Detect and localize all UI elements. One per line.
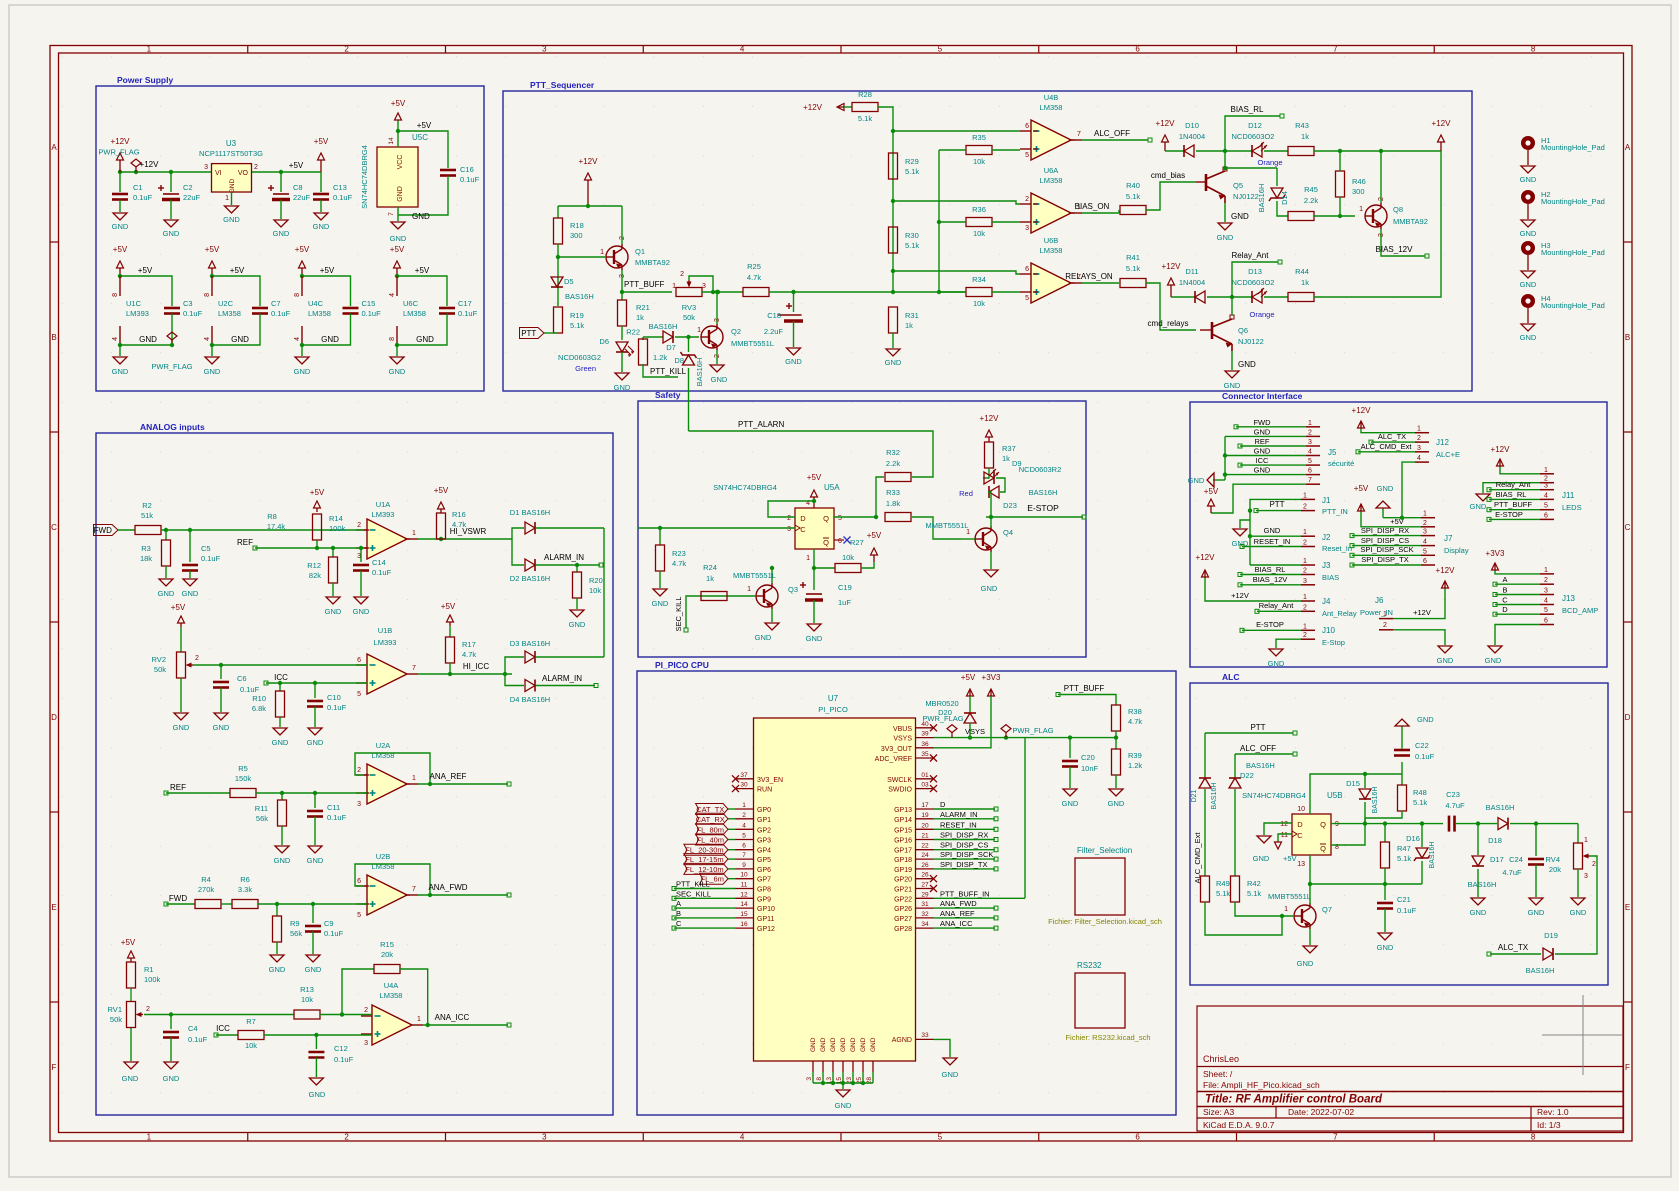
svg-text:PWR_FLAG: PWR_FLAG bbox=[98, 148, 139, 157]
svg-text:J13: J13 bbox=[1562, 594, 1575, 603]
svg-text:D: D bbox=[940, 800, 946, 809]
svg-text:AGND: AGND bbox=[892, 1037, 912, 1044]
svg-text:9: 9 bbox=[1335, 821, 1339, 828]
svg-text:GND: GND bbox=[1254, 466, 1271, 475]
svg-text:+12V: +12V bbox=[1156, 119, 1176, 128]
svg-text:D7: D7 bbox=[666, 343, 676, 352]
svg-text:D10: D10 bbox=[1185, 121, 1199, 130]
svg-text:4: 4 bbox=[1308, 449, 1312, 456]
svg-text:R27: R27 bbox=[850, 538, 864, 547]
svg-text:Q3: Q3 bbox=[788, 585, 798, 594]
svg-text:ICC: ICC bbox=[216, 1024, 230, 1033]
svg-text:NCD0603O2: NCD0603O2 bbox=[1232, 278, 1275, 287]
svg-text:50k: 50k bbox=[154, 665, 166, 674]
svg-text:D15: D15 bbox=[1346, 779, 1360, 788]
svg-text:BAS16H: BAS16H bbox=[1246, 761, 1275, 770]
svg-text:1: 1 bbox=[1544, 567, 1548, 574]
svg-text:D: D bbox=[800, 514, 806, 523]
svg-text:cmd_relays: cmd_relays bbox=[1148, 319, 1189, 328]
svg-text:+5V: +5V bbox=[391, 99, 406, 108]
svg-text:ALC_TX: ALC_TX bbox=[1498, 943, 1529, 952]
svg-text:BAS16H: BAS16H bbox=[1429, 842, 1436, 869]
svg-text:MBR0520: MBR0520 bbox=[925, 699, 958, 708]
svg-text:VI: VI bbox=[215, 170, 222, 177]
svg-text:33: 33 bbox=[921, 1032, 929, 1039]
svg-text:GND: GND bbox=[1108, 799, 1125, 808]
svg-text:SEC_KILL: SEC_KILL bbox=[676, 889, 711, 898]
svg-text:3: 3 bbox=[357, 801, 361, 808]
svg-text:R44: R44 bbox=[1295, 267, 1309, 276]
svg-text:LM358: LM358 bbox=[218, 309, 241, 318]
svg-text:R28: R28 bbox=[858, 90, 872, 99]
svg-text:R7: R7 bbox=[246, 1017, 256, 1026]
svg-text:D3 BAS16H: D3 BAS16H bbox=[510, 639, 550, 648]
svg-text:MMBTA92: MMBTA92 bbox=[1393, 217, 1428, 226]
svg-text:R9: R9 bbox=[290, 919, 300, 928]
svg-text:7: 7 bbox=[412, 886, 416, 893]
svg-text:SPI_DISP_CS: SPI_DISP_CS bbox=[1361, 536, 1409, 545]
svg-text:6: 6 bbox=[838, 538, 842, 545]
svg-text:R29: R29 bbox=[905, 157, 919, 166]
svg-text:50k: 50k bbox=[110, 1015, 122, 1024]
svg-text:+5V: +5V bbox=[205, 245, 220, 254]
svg-text:D21: D21 bbox=[1191, 789, 1198, 802]
svg-text:35: 35 bbox=[921, 751, 929, 758]
svg-text:ALC+E: ALC+E bbox=[1436, 450, 1460, 459]
svg-text:U5B: U5B bbox=[1327, 791, 1343, 800]
svg-text:2: 2 bbox=[680, 271, 684, 278]
svg-text:File: Ampli_HF_Pico.kicad_sch: File: Ampli_HF_Pico.kicad_sch bbox=[1203, 1080, 1320, 1090]
svg-text:D5: D5 bbox=[564, 277, 574, 286]
svg-text:Safety: Safety bbox=[655, 390, 681, 400]
svg-text:PTT_BUFF_IN: PTT_BUFF_IN bbox=[940, 889, 990, 898]
svg-text:34: 34 bbox=[921, 921, 929, 928]
svg-text:100k: 100k bbox=[329, 524, 346, 533]
svg-text:GND: GND bbox=[416, 335, 434, 344]
svg-text:R4: R4 bbox=[201, 875, 211, 884]
svg-text:6: 6 bbox=[1308, 468, 1312, 475]
svg-text:R19: R19 bbox=[570, 311, 584, 320]
svg-text:GND: GND bbox=[1377, 484, 1394, 493]
svg-text:7: 7 bbox=[388, 212, 395, 216]
svg-text:0.1uF: 0.1uF bbox=[240, 685, 260, 694]
svg-text:ALARM_IN: ALARM_IN bbox=[542, 674, 582, 683]
svg-text:2: 2 bbox=[1303, 604, 1307, 611]
svg-text:10k: 10k bbox=[973, 229, 985, 238]
svg-text:E-STOP: E-STOP bbox=[1256, 620, 1284, 629]
svg-text:GND: GND bbox=[204, 367, 221, 376]
svg-text:RV1: RV1 bbox=[108, 1005, 122, 1014]
svg-text:1: 1 bbox=[225, 195, 229, 202]
svg-text:R35: R35 bbox=[972, 133, 986, 142]
svg-text:SPI_DISP_CS: SPI_DISP_CS bbox=[940, 841, 988, 850]
svg-text:+5V: +5V bbox=[441, 602, 456, 611]
svg-text:REF: REF bbox=[237, 538, 253, 547]
svg-text:+12V: +12V bbox=[1491, 445, 1511, 454]
svg-text:2: 2 bbox=[1303, 568, 1307, 575]
svg-text:U4B: U4B bbox=[1044, 93, 1059, 102]
svg-text:10: 10 bbox=[740, 872, 748, 879]
svg-text:Relay_Ant: Relay_Ant bbox=[1496, 480, 1532, 489]
svg-text:Q: Q bbox=[1320, 844, 1326, 853]
svg-text:ANA_ICC: ANA_ICC bbox=[435, 1013, 470, 1022]
svg-text:GP15: GP15 bbox=[894, 827, 912, 834]
svg-text:5: 5 bbox=[357, 912, 361, 919]
svg-text:ANA_FWD: ANA_FWD bbox=[940, 899, 977, 908]
svg-text:3: 3 bbox=[364, 1040, 368, 1047]
svg-text:R17: R17 bbox=[462, 640, 476, 649]
svg-text:ALARM_IN: ALARM_IN bbox=[940, 810, 978, 819]
svg-text:PTT: PTT bbox=[1250, 723, 1265, 732]
svg-text:GND: GND bbox=[614, 383, 631, 392]
svg-text:GP4: GP4 bbox=[757, 848, 771, 855]
svg-text:R8: R8 bbox=[267, 512, 277, 521]
svg-text:D: D bbox=[1297, 820, 1303, 829]
svg-text:1: 1 bbox=[417, 1016, 421, 1023]
svg-text:4: 4 bbox=[740, 45, 745, 54]
svg-text:3: 3 bbox=[1584, 873, 1588, 880]
svg-text:D12: D12 bbox=[1248, 121, 1262, 130]
svg-text:RS232: RS232 bbox=[1077, 961, 1102, 970]
svg-text:2: 2 bbox=[146, 1006, 150, 1013]
svg-text:Relay_Ant: Relay_Ant bbox=[1232, 251, 1270, 260]
svg-text:1: 1 bbox=[1303, 558, 1307, 565]
svg-text:R46: R46 bbox=[1352, 177, 1366, 186]
svg-text:+3V3: +3V3 bbox=[982, 673, 1001, 682]
svg-text:5.1k: 5.1k bbox=[1397, 854, 1411, 863]
svg-text:PI_PICO: PI_PICO bbox=[818, 705, 848, 714]
svg-text:5: 5 bbox=[938, 1133, 943, 1142]
svg-text:C: C bbox=[1625, 523, 1631, 532]
svg-text:MountingHole_Pad: MountingHole_Pad bbox=[1541, 197, 1605, 206]
svg-text:FL_12-10m: FL_12-10m bbox=[685, 865, 723, 874]
svg-text:+5V: +5V bbox=[113, 245, 128, 254]
svg-text:Q8: Q8 bbox=[1393, 205, 1403, 214]
svg-text:4.7uF: 4.7uF bbox=[1445, 801, 1465, 810]
svg-text:ADC_VREF: ADC_VREF bbox=[875, 756, 912, 763]
svg-text:GP16: GP16 bbox=[894, 838, 912, 845]
svg-text:GND: GND bbox=[981, 584, 998, 593]
svg-text:GP8: GP8 bbox=[757, 887, 771, 894]
svg-text:1.8k: 1.8k bbox=[886, 499, 900, 508]
svg-text:PWR_FLAG: PWR_FLAG bbox=[1012, 726, 1053, 735]
svg-text:2: 2 bbox=[1308, 429, 1312, 436]
svg-text:5: 5 bbox=[1544, 607, 1548, 614]
svg-text:Q4: Q4 bbox=[1003, 528, 1013, 537]
svg-text:36: 36 bbox=[921, 741, 929, 748]
svg-text:J6: J6 bbox=[1375, 596, 1384, 605]
svg-text:C: C bbox=[1502, 596, 1508, 605]
svg-text:+5V: +5V bbox=[415, 266, 430, 275]
svg-text:6: 6 bbox=[1423, 558, 1427, 565]
svg-text:51k: 51k bbox=[141, 511, 153, 520]
svg-text:GND: GND bbox=[412, 212, 430, 221]
svg-text:R13: R13 bbox=[300, 985, 314, 994]
svg-text:R14: R14 bbox=[329, 514, 343, 523]
svg-text:+5V: +5V bbox=[434, 486, 449, 495]
svg-text:C13: C13 bbox=[333, 183, 347, 192]
svg-text:R48: R48 bbox=[1413, 788, 1427, 797]
svg-text:GND: GND bbox=[1188, 476, 1205, 485]
svg-text:SWCLK: SWCLK bbox=[887, 777, 912, 784]
svg-text:+12V: +12V bbox=[1352, 406, 1372, 415]
svg-text:Filter_Selection: Filter_Selection bbox=[1077, 846, 1132, 855]
svg-text:D: D bbox=[1625, 713, 1631, 722]
svg-text:BCD_AMP: BCD_AMP bbox=[1562, 606, 1598, 615]
svg-text:LM358: LM358 bbox=[380, 991, 403, 1000]
svg-text:PTT_ALARN: PTT_ALARN bbox=[738, 420, 784, 429]
svg-text:GP26: GP26 bbox=[894, 906, 912, 913]
svg-text:8: 8 bbox=[816, 1077, 823, 1081]
svg-text:GND: GND bbox=[307, 856, 324, 865]
svg-text:Q: Q bbox=[823, 538, 829, 547]
svg-text:GND: GND bbox=[353, 607, 370, 616]
svg-text:3: 3 bbox=[542, 45, 547, 54]
svg-text:R34: R34 bbox=[972, 275, 986, 284]
svg-text:3V3_EN: 3V3_EN bbox=[757, 777, 783, 784]
svg-text:D16: D16 bbox=[1406, 834, 1420, 843]
svg-text:D17: D17 bbox=[1490, 855, 1504, 864]
svg-text:1: 1 bbox=[147, 45, 152, 54]
svg-text:1: 1 bbox=[1359, 206, 1363, 213]
svg-text:GND: GND bbox=[1570, 908, 1587, 917]
svg-text:8: 8 bbox=[1531, 1133, 1536, 1142]
svg-text:0.1uF: 0.1uF bbox=[1415, 752, 1435, 761]
svg-text:J3: J3 bbox=[1322, 561, 1331, 570]
svg-text:C1: C1 bbox=[133, 183, 143, 192]
svg-text:NCD0603G2: NCD0603G2 bbox=[558, 353, 601, 362]
svg-text:E-STOP: E-STOP bbox=[1027, 503, 1059, 513]
svg-text:U5C: U5C bbox=[412, 133, 428, 142]
svg-text:31: 31 bbox=[921, 901, 929, 908]
svg-text:2: 2 bbox=[254, 164, 258, 171]
svg-text:F: F bbox=[52, 1063, 57, 1072]
svg-text:R31: R31 bbox=[905, 311, 919, 320]
svg-text:D4 BAS16H: D4 BAS16H bbox=[510, 695, 550, 704]
svg-text:10k: 10k bbox=[301, 995, 313, 1004]
svg-text:GND: GND bbox=[269, 965, 286, 974]
svg-text:R6: R6 bbox=[240, 875, 250, 884]
svg-text:+12V: +12V bbox=[1432, 119, 1452, 128]
svg-text:R32: R32 bbox=[886, 448, 900, 457]
svg-text:8: 8 bbox=[294, 293, 301, 297]
svg-text:Connector Interface: Connector Interface bbox=[1222, 391, 1303, 401]
svg-text:2: 2 bbox=[344, 45, 349, 54]
svg-text:GND: GND bbox=[1238, 360, 1256, 369]
svg-text:3: 3 bbox=[1544, 483, 1548, 490]
svg-text:17: 17 bbox=[921, 802, 929, 809]
svg-text:GND: GND bbox=[870, 1037, 877, 1052]
svg-text:GND: GND bbox=[313, 222, 330, 231]
svg-text:6: 6 bbox=[357, 878, 361, 885]
svg-text:VO: VO bbox=[238, 170, 249, 177]
svg-text:Title: RF Amplifier control Bo: Title: RF Amplifier control Board bbox=[1205, 1094, 1383, 1106]
svg-text:GND: GND bbox=[272, 738, 289, 747]
svg-text:0.1uF: 0.1uF bbox=[324, 929, 344, 938]
svg-text:D11: D11 bbox=[1185, 267, 1198, 276]
svg-text:GND: GND bbox=[390, 234, 407, 243]
svg-text:GND: GND bbox=[182, 589, 199, 598]
svg-text:A: A bbox=[1502, 575, 1507, 584]
svg-text:6: 6 bbox=[1544, 618, 1548, 625]
svg-text:SPI_DISP_RX: SPI_DISP_RX bbox=[940, 831, 988, 840]
svg-text:20: 20 bbox=[921, 822, 929, 829]
svg-text:LM358: LM358 bbox=[308, 309, 331, 318]
svg-text:BAS16H: BAS16H bbox=[1372, 787, 1379, 814]
svg-text:GND: GND bbox=[1297, 959, 1314, 968]
svg-text:GP14: GP14 bbox=[894, 817, 912, 824]
svg-text:GND: GND bbox=[1520, 229, 1537, 238]
svg-text:GND: GND bbox=[785, 357, 802, 366]
svg-text:17.4k: 17.4k bbox=[267, 522, 286, 531]
svg-text:NCP1117ST50T3G: NCP1117ST50T3G bbox=[199, 149, 263, 158]
svg-text:Power_IN: Power_IN bbox=[1360, 608, 1393, 617]
svg-text:1N4004: 1N4004 bbox=[1179, 278, 1205, 287]
svg-text:ALC: ALC bbox=[1222, 672, 1239, 682]
svg-text:GND: GND bbox=[810, 1037, 817, 1052]
svg-text:4.7k: 4.7k bbox=[462, 650, 476, 659]
svg-text:GND: GND bbox=[122, 1074, 139, 1083]
svg-text:1uF: 1uF bbox=[838, 598, 851, 607]
svg-text:03: 03 bbox=[921, 782, 929, 789]
svg-text:1k: 1k bbox=[905, 321, 913, 330]
svg-text:+12V: +12V bbox=[111, 137, 131, 146]
svg-text:Q2: Q2 bbox=[731, 327, 741, 336]
svg-text:8: 8 bbox=[1531, 45, 1536, 54]
svg-text:GP17: GP17 bbox=[894, 848, 912, 855]
svg-text:10k: 10k bbox=[973, 157, 985, 166]
svg-text:GND: GND bbox=[397, 186, 404, 202]
svg-text:ANALOG inputs: ANALOG inputs bbox=[140, 422, 205, 432]
svg-text:GP27: GP27 bbox=[894, 916, 912, 923]
svg-text:R1: R1 bbox=[144, 965, 154, 974]
svg-text:C22: C22 bbox=[1415, 741, 1429, 750]
svg-text:D: D bbox=[51, 713, 57, 722]
svg-text:1: 1 bbox=[697, 327, 701, 334]
svg-text:3: 3 bbox=[702, 283, 706, 290]
svg-text:C23: C23 bbox=[1446, 790, 1460, 799]
svg-text:C17: C17 bbox=[458, 299, 472, 308]
svg-text:SPI_DISP_SCK: SPI_DISP_SCK bbox=[940, 850, 993, 859]
svg-text:Size: A3: Size: A3 bbox=[1203, 1107, 1234, 1117]
svg-text:1k: 1k bbox=[706, 574, 714, 583]
svg-text:1: 1 bbox=[1383, 611, 1387, 618]
svg-text:21: 21 bbox=[921, 833, 929, 840]
svg-text:GND: GND bbox=[835, 1101, 852, 1110]
svg-text:D8: D8 bbox=[674, 356, 684, 365]
svg-text:Q: Q bbox=[823, 514, 829, 523]
svg-text:MountingHole_Pad: MountingHole_Pad bbox=[1541, 143, 1605, 152]
svg-text:4: 4 bbox=[1544, 492, 1548, 499]
svg-text:GP10: GP10 bbox=[757, 906, 775, 913]
svg-text:6: 6 bbox=[742, 843, 746, 850]
svg-text:C9: C9 bbox=[324, 919, 334, 928]
svg-text:C11: C11 bbox=[327, 803, 340, 812]
svg-text:GND: GND bbox=[1520, 333, 1537, 342]
svg-text:2: 2 bbox=[195, 655, 199, 662]
svg-text:J5: J5 bbox=[1328, 448, 1337, 457]
svg-text:3V3_OUT: 3V3_OUT bbox=[881, 746, 913, 753]
svg-text:PTT_Sequencer: PTT_Sequencer bbox=[530, 80, 595, 90]
svg-text:BIAS: BIAS bbox=[1322, 573, 1339, 582]
svg-text:4.7uF: 4.7uF bbox=[1502, 868, 1522, 877]
svg-text:+12V: +12V bbox=[1196, 553, 1216, 562]
svg-text:+5V: +5V bbox=[310, 488, 325, 497]
svg-text:19: 19 bbox=[921, 812, 929, 819]
svg-text:6: 6 bbox=[1544, 512, 1548, 519]
svg-text:ALC_OFF: ALC_OFF bbox=[1094, 129, 1130, 138]
svg-text:J12: J12 bbox=[1436, 438, 1449, 447]
svg-text:MMBT5551L: MMBT5551L bbox=[731, 339, 774, 348]
svg-text:ANA_FWD: ANA_FWD bbox=[428, 883, 467, 892]
svg-text:C6: C6 bbox=[237, 674, 247, 683]
svg-text:0.1uF: 0.1uF bbox=[327, 703, 347, 712]
svg-text:1: 1 bbox=[1423, 511, 1427, 518]
svg-text:+12V: +12V bbox=[1413, 608, 1431, 617]
svg-text:20k: 20k bbox=[1549, 865, 1561, 874]
svg-text:LM358: LM358 bbox=[1040, 246, 1063, 255]
svg-text:1: 1 bbox=[1544, 467, 1548, 474]
svg-text:2: 2 bbox=[1592, 861, 1596, 868]
svg-text:R20: R20 bbox=[589, 576, 603, 585]
svg-text:GND: GND bbox=[806, 634, 823, 643]
svg-text:2: 2 bbox=[364, 1007, 368, 1014]
svg-text:BAS16H: BAS16H bbox=[1468, 880, 1497, 889]
svg-text:4.7k: 4.7k bbox=[747, 273, 761, 282]
svg-text:PTT_BUFF: PTT_BUFF bbox=[624, 280, 665, 289]
svg-text:2: 2 bbox=[357, 522, 361, 529]
svg-text:270k: 270k bbox=[198, 885, 215, 894]
svg-text:+5V: +5V bbox=[867, 531, 882, 540]
svg-text:10: 10 bbox=[1297, 806, 1305, 813]
svg-text:2: 2 bbox=[1303, 540, 1307, 547]
svg-text:C16: C16 bbox=[460, 165, 474, 174]
svg-text:5.1k: 5.1k bbox=[858, 114, 872, 123]
svg-text:GND: GND bbox=[1520, 280, 1537, 289]
svg-text:SN74HC74DBRG4: SN74HC74DBRG4 bbox=[360, 145, 369, 209]
svg-text:GND: GND bbox=[294, 367, 311, 376]
svg-text:FL_17-15m: FL_17-15m bbox=[685, 855, 723, 864]
svg-text:U6A: U6A bbox=[1044, 166, 1059, 175]
svg-text:1: 1 bbox=[806, 555, 810, 562]
svg-text:R42: R42 bbox=[1247, 879, 1261, 888]
svg-text:R16: R16 bbox=[452, 510, 466, 519]
svg-text:R24: R24 bbox=[703, 563, 717, 572]
svg-text:SEC_KILL: SEC_KILL bbox=[674, 596, 683, 631]
svg-text:FL_80m: FL_80m bbox=[697, 825, 725, 834]
svg-text:13: 13 bbox=[1297, 861, 1305, 868]
svg-text:C3: C3 bbox=[183, 299, 193, 308]
svg-text:0.1uF: 0.1uF bbox=[271, 309, 291, 318]
svg-text:2.2k: 2.2k bbox=[1304, 196, 1318, 205]
svg-text:Power Supply: Power Supply bbox=[117, 75, 173, 85]
svg-text:GP7: GP7 bbox=[757, 877, 771, 884]
svg-text:GP28: GP28 bbox=[894, 926, 912, 933]
svg-text:+12V: +12V bbox=[980, 414, 1000, 423]
svg-text:GP19: GP19 bbox=[894, 867, 912, 874]
svg-text:R10: R10 bbox=[252, 694, 266, 703]
svg-text:SN74HC74DBRG4: SN74HC74DBRG4 bbox=[1242, 791, 1306, 800]
svg-text:F: F bbox=[1625, 1063, 1630, 1072]
svg-text:GND: GND bbox=[1231, 212, 1249, 221]
svg-text:+5V: +5V bbox=[1204, 487, 1219, 496]
svg-text:18k: 18k bbox=[140, 554, 152, 563]
svg-text:C24: C24 bbox=[1509, 855, 1523, 864]
svg-text:R40: R40 bbox=[1126, 181, 1140, 190]
svg-text:RV2: RV2 bbox=[152, 655, 166, 664]
svg-text:+12V: +12V bbox=[803, 103, 823, 112]
svg-text:300: 300 bbox=[570, 231, 583, 240]
